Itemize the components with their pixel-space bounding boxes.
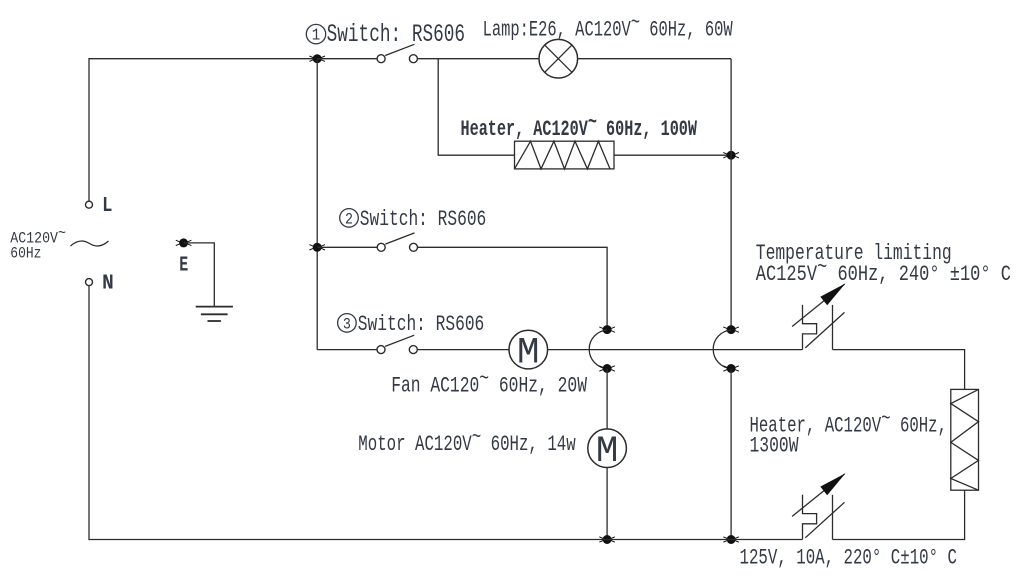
svg-text:1: 1 (312, 27, 321, 46)
switch S3 (RS606) contacts and lever (377, 335, 417, 353)
switch S2 (RS606) contacts and lever (377, 233, 417, 251)
motor M2 (oven motor) (588, 429, 627, 473)
svg-text:2: 2 (345, 210, 353, 228)
node E junction dot bottom motor branch (599, 535, 615, 544)
wire S1 to lamp (417, 58, 539, 60)
wire L top: from L terminal up and right to node A (89, 59, 317, 202)
heater R1 100W body (515, 141, 615, 169)
terminal E dot (176, 238, 192, 247)
svg-text:M: M (517, 333, 540, 375)
svg-text:Motor AC120V~ 60Hz, 14w: Motor AC120V~ 60Hz, 14w (358, 425, 575, 457)
wire TS1 to right edge (833, 350, 965, 390)
wire left bus to switch S3 (317, 349, 377, 351)
svg-text:Heater, AC120V~ 60Hz, 100W: Heater, AC120V~ 60Hz, 100W (461, 110, 698, 142)
svg-text:Switch: RS606: Switch: RS606 (360, 207, 487, 232)
wire fan row to thermostat TS1 (548, 349, 803, 351)
svg-text:N: N (102, 273, 114, 296)
right bus vertical lower (730, 369, 732, 540)
terminal N circle (86, 279, 93, 286)
right bus vertical upper (730, 59, 732, 330)
svg-text:L: L (102, 195, 112, 218)
svg-text:Lamp:E26, AC120V~ 60Hz, 60W: Lamp:E26, AC120V~ 60Hz, 60W (483, 11, 734, 43)
wire hop to motor M2 (606, 369, 608, 429)
label switch S1 circled digit 1 (306, 24, 325, 45)
wire heater R2 to bottom right corner (833, 490, 965, 539)
hop dot motor branch top (599, 325, 615, 334)
hop dot motor branch bottom (599, 364, 615, 373)
svg-text:1300W: 1300W (750, 434, 800, 459)
switch S1 (RS606) contacts and lever (377, 44, 417, 62)
svg-text:Fan AC120~ 60Hz, 20W: Fan AC120~ 60Hz, 20W (391, 367, 587, 399)
node B junction dot (switch2 tap) (309, 243, 325, 252)
wire S2 to motor branch (418, 247, 608, 329)
wire hop arc on right bus (713, 330, 731, 369)
wire heater R1 to right bus (614, 154, 731, 156)
wire motor M2 to bottom bus (606, 468, 608, 540)
wire E to ground (184, 243, 215, 307)
AC source sine symbol (71, 241, 109, 246)
node A junction dot (309, 54, 325, 63)
bottom bus wire from N to TS2 (89, 286, 803, 540)
wire hop arc on motor branch (589, 330, 607, 369)
label switch S2 circled digit 2 (340, 209, 359, 229)
node C junction dot (heater/right bus) (723, 151, 739, 160)
heater R2 1300W body (951, 389, 979, 490)
hop dot right bus bottom (723, 364, 739, 373)
wire node A to switch S1 (317, 58, 377, 60)
svg-text:E: E (179, 255, 188, 278)
lamp LA1 (E26) (539, 39, 578, 78)
thermostat TS1 temperature limiter (792, 283, 845, 349)
hop dot right bus top (723, 325, 739, 334)
wire heater branch drop (438, 59, 514, 156)
svg-text:60Hz: 60Hz (10, 244, 41, 262)
node D junction dot bottom right bus (723, 535, 739, 544)
svg-text:125V, 10A, 220° C±10° C: 125V, 10A, 220° C±10° C (740, 546, 958, 571)
svg-text:M: M (596, 431, 619, 473)
ground symbol (196, 307, 233, 321)
svg-text:3: 3 (343, 315, 351, 333)
wire node B to switch S2 (317, 246, 377, 248)
terminal L circle (86, 201, 93, 208)
svg-text:Switch: RS606: Switch: RS606 (327, 20, 466, 49)
label switch S3 circled digit 3 (338, 314, 357, 334)
thermostat TS2 thermal cutoff (792, 473, 845, 539)
svg-text:Switch: RS606: Switch: RS606 (358, 312, 485, 337)
wire S3 to fan motor (417, 349, 509, 351)
motor M1 (fan) (509, 330, 548, 374)
left vertical bus wire (316, 59, 318, 350)
wire lamp to right bus (578, 58, 732, 60)
